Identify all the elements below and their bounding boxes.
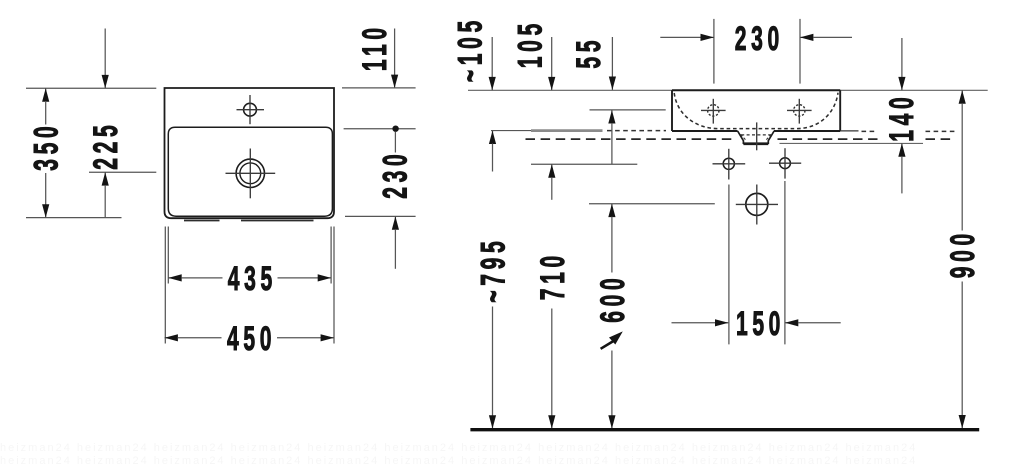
svg-text:225: 225 (86, 121, 124, 170)
svg-text:140: 140 (882, 93, 920, 142)
svg-text:~105: ~105 (450, 16, 488, 82)
svg-text:230: 230 (735, 19, 784, 57)
svg-text:110: 110 (355, 23, 393, 71)
svg-text:55: 55 (569, 36, 607, 69)
svg-text:~795: ~795 (473, 237, 511, 303)
svg-text:230: 230 (375, 150, 413, 199)
svg-text:900: 900 (943, 229, 981, 278)
svg-text:710: 710 (533, 251, 571, 300)
svg-text:350: 350 (26, 122, 64, 171)
svg-text:450: 450 (227, 319, 276, 357)
svg-text:600: 600 (593, 274, 631, 323)
svg-text:105: 105 (510, 19, 548, 68)
svg-text:435: 435 (228, 259, 277, 297)
svg-text:150: 150 (736, 304, 785, 342)
